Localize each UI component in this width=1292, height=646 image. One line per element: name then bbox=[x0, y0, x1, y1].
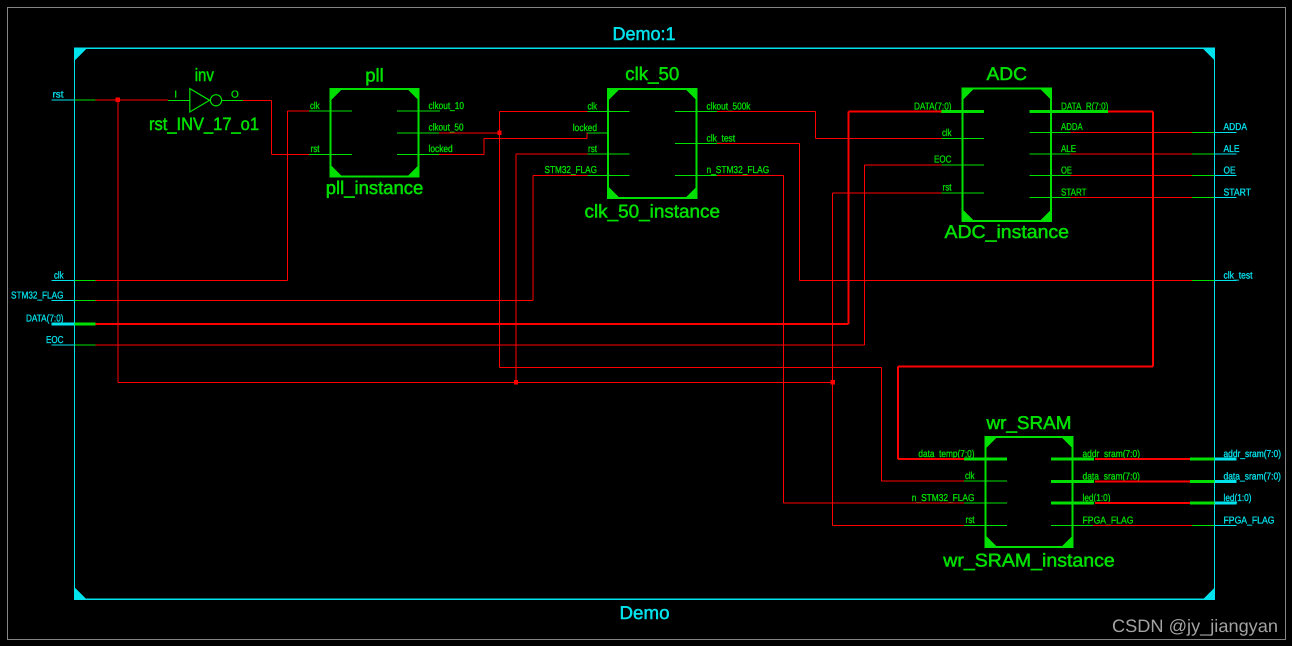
wire net clk: from port bbox=[96, 280, 288, 282]
wire net clkout_50: vertical through bbox=[499, 112, 501, 368]
port output OE bbox=[1192, 166, 1237, 177]
svg-text:pll: pll bbox=[365, 65, 384, 86]
svg-text:ALE: ALE bbox=[1224, 144, 1240, 155]
component ADC (ADC_instance) : block outline bbox=[963, 89, 1052, 222]
junction net clkout_50 branch bbox=[497, 131, 501, 135]
inverter bubble bbox=[210, 95, 221, 106]
port output addr_sram(7:0) bbox=[1190, 449, 1281, 460]
svg-text:inv: inv bbox=[195, 65, 214, 85]
pin ADC.clk (input) stub bbox=[941, 137, 984, 139]
port output ADDA bbox=[1192, 122, 1247, 133]
pin ADC.rst (input) stub bbox=[941, 192, 984, 194]
wire net locked: jog into clk_50.locked bbox=[586, 133, 588, 138]
pin clk_50.clk (input) stub bbox=[587, 111, 630, 113]
port output data_sram(7:0) bbox=[1190, 471, 1281, 482]
wire bus DATA(7:0): into ADC.DATA bbox=[849, 111, 942, 113]
svg-text:clk: clk bbox=[942, 128, 952, 139]
wire net clkout_50: into clk_50.clk bbox=[500, 111, 588, 113]
pin pll.clkout_50 (output) stub bbox=[397, 132, 440, 134]
wire net STM32_FLAG: riser bbox=[532, 175, 534, 300]
svg-text:ADC_instance: ADC_instance bbox=[945, 221, 1070, 242]
wire net rst: into ADC.rst bbox=[833, 192, 942, 194]
component clk_50 (clk_50_instance) : block outline bbox=[608, 89, 697, 198]
svg-text:n_STM32_FLAG: n_STM32_FLAG bbox=[707, 165, 770, 176]
svg-text:rst: rst bbox=[966, 515, 975, 526]
wire bus DATA(7:0): from port bbox=[96, 323, 849, 325]
wire net clk: into pll.clk bbox=[288, 110, 309, 112]
wire net FPGA_FLAG to port bbox=[1093, 525, 1192, 527]
wire net n_STM32_FLAG: drop bbox=[783, 175, 785, 503]
svg-text:pll_instance: pll_instance bbox=[326, 177, 424, 198]
svg-text:FPGA_FLAG: FPGA_FLAG bbox=[1224, 515, 1275, 526]
svg-text:OE: OE bbox=[1061, 166, 1072, 177]
svg-text:ADDA: ADDA bbox=[1224, 122, 1248, 133]
wire bus data_sram(7:0) to port bbox=[1095, 481, 1190, 483]
svg-text:clk_50: clk_50 bbox=[625, 63, 679, 84]
svg-text:DATA_R(7:0): DATA_R(7:0) bbox=[1061, 101, 1108, 112]
pin wr_SRAM.data_sram(7:0) (output) stub bbox=[1051, 480, 1094, 483]
svg-text:clk: clk bbox=[54, 271, 64, 282]
port output ALE bbox=[1192, 144, 1240, 155]
port input clk bbox=[52, 271, 96, 282]
junction net rst at inverter tap bbox=[116, 98, 120, 102]
pin wr_SRAM.n_STM32_FLAG (input) stub bbox=[964, 502, 1007, 504]
svg-text:locked: locked bbox=[573, 123, 597, 134]
clk_50 corner marks bbox=[608, 89, 697, 198]
svg-text:Demo:1: Demo:1 bbox=[613, 23, 676, 44]
pin ADC.START (output) stub bbox=[1030, 197, 1073, 199]
svg-text:addr_sram(7:0): addr_sram(7:0) bbox=[1224, 449, 1282, 460]
wire net clkout_500k: jog down bbox=[814, 112, 816, 139]
wire net clkout_500k: into ADC.clk bbox=[815, 137, 941, 139]
pin clk_50.n_STM32_FLAG (output) stub bbox=[675, 174, 718, 176]
wire net rst: long horizontal run bbox=[118, 381, 833, 383]
wire net rst: port to inverter input bbox=[96, 99, 169, 101]
port input DATA(7:0) bbox=[26, 314, 96, 325]
svg-text:wr_SRAM_instance: wr_SRAM_instance bbox=[942, 550, 1114, 571]
wire net rst: vertical drop bbox=[117, 100, 119, 383]
svg-text:EOC: EOC bbox=[46, 335, 64, 346]
wire net clk: riser bbox=[287, 111, 289, 281]
component pll (pll_instance) : block outline bbox=[331, 89, 419, 177]
pin clk_50.rst (input) stub bbox=[587, 153, 630, 155]
svg-text:clk: clk bbox=[588, 101, 598, 112]
svg-text:START: START bbox=[1061, 187, 1087, 198]
svg-text:EOC: EOC bbox=[934, 155, 952, 166]
svg-text:OE: OE bbox=[1224, 166, 1236, 177]
pin ADC.ALE (output) stub bbox=[1030, 153, 1073, 155]
junction net rst at ADC/wr_SRAM branch bbox=[830, 380, 834, 384]
pin ADC.OE (output) stub bbox=[1030, 175, 1073, 177]
wire net rst: into clk_50.rst bbox=[516, 153, 588, 155]
svg-text:rst: rst bbox=[943, 183, 952, 194]
wire net clk_test: drop bbox=[799, 144, 801, 281]
svg-text:data_sram(7:0): data_sram(7:0) bbox=[1224, 471, 1282, 482]
svg-text:clk_50_instance: clk_50_instance bbox=[585, 201, 721, 222]
svg-text:STM32_FLAG: STM32_FLAG bbox=[545, 165, 598, 176]
port input rst bbox=[52, 90, 96, 101]
svg-text:ALE: ALE bbox=[1061, 144, 1076, 155]
wire net rst: into wr_SRAM.rst bbox=[833, 524, 964, 526]
junction net rst at clk_50 branch bbox=[514, 380, 518, 384]
port output START bbox=[1192, 187, 1251, 198]
svg-text:FPGA_FLAG: FPGA_FLAG bbox=[1083, 515, 1134, 526]
wire net clkout_50: drop to wr_SRAM.clk bbox=[880, 367, 882, 481]
wire net n_STM32_FLAG: into wr_SRAM bbox=[784, 502, 964, 504]
wire net clkout_500k: from clk_50 bbox=[717, 111, 815, 113]
svg-text:O: O bbox=[231, 90, 239, 101]
pin clk_50.clkout_500k (output) stub bbox=[675, 111, 718, 113]
wire net EOC: from port bbox=[96, 344, 865, 346]
ADC corner marks bbox=[963, 89, 1052, 222]
pin pll.rst (input) stub bbox=[309, 153, 352, 155]
inverter triangle bbox=[190, 89, 210, 112]
pin inv.I stub bbox=[168, 99, 190, 101]
pin inv.O stub bbox=[222, 99, 243, 101]
sheet border (Demo) bbox=[75, 48, 1215, 599]
wire net STM32_FLAG: into clk_50 bbox=[533, 174, 588, 176]
pin wr_SRAM.led(1:0) (output) stub bbox=[1051, 502, 1094, 505]
wire bus DATA_R(7:0): drop bbox=[1152, 112, 1154, 367]
wire bus led(1:0) to port bbox=[1095, 502, 1190, 504]
svg-text:Demo: Demo bbox=[620, 602, 670, 623]
pin pll.clk (input) stub bbox=[309, 110, 352, 112]
wire net ADDA to port bbox=[1071, 131, 1193, 133]
port output led(1:0) bbox=[1190, 493, 1252, 504]
pin wr_SRAM.clk (input) stub bbox=[964, 480, 1007, 482]
pin wr_SRAM.rst (input) stub bbox=[964, 524, 1007, 526]
pin clk_50.locked (input) stub bbox=[587, 132, 609, 134]
svg-text:DATA(7:0): DATA(7:0) bbox=[26, 314, 64, 325]
svg-text:START: START bbox=[1224, 187, 1252, 198]
component wr_SRAM (wr_SRAM_instance) : block outline bbox=[986, 437, 1073, 547]
svg-text:clk_test: clk_test bbox=[707, 133, 736, 144]
svg-text:clkout_50: clkout_50 bbox=[429, 123, 464, 134]
wire net STM32_FLAG: from port bbox=[96, 300, 534, 302]
wire net EOC: riser bbox=[864, 165, 866, 345]
pin wr_SRAM.addr_sram(7:0) (output) stub bbox=[1051, 458, 1094, 461]
wire bus addr_sram(7:0) to port bbox=[1095, 458, 1190, 460]
svg-text:clk_test: clk_test bbox=[1224, 270, 1253, 281]
wire net clkout_50: run to wr_SRAM bbox=[500, 366, 882, 368]
wire net locked: run bbox=[484, 137, 587, 139]
svg-text:locked: locked bbox=[429, 144, 453, 155]
pin pll.locked (output) stub bbox=[397, 153, 440, 155]
wire net START to port bbox=[1071, 197, 1193, 199]
svg-text:ADDA: ADDA bbox=[1061, 122, 1083, 133]
svg-text:rst_INV_17_o1: rst_INV_17_o1 bbox=[149, 114, 259, 134]
port input STM32_FLAG bbox=[11, 291, 96, 302]
svg-text:clkout_10: clkout_10 bbox=[429, 101, 465, 112]
wire bus DATA(7:0): riser bbox=[848, 112, 850, 324]
port input EOC bbox=[46, 335, 96, 346]
wire net rst: riser to clk_50.rst bbox=[515, 154, 517, 382]
wire bus DATA_R(7:0): into wr_SRAM.data_temp bbox=[898, 458, 964, 460]
pin wr_SRAM.FPGA_FLAG (output) stub bbox=[1051, 525, 1094, 527]
wire net rst_inv: drop bbox=[270, 100, 272, 154]
pin ADC.ADDA (output) stub bbox=[1030, 131, 1073, 133]
wire bus DATA_R(7:0): run left bbox=[898, 366, 1153, 368]
pin ADC.EOC (input) stub bbox=[941, 164, 984, 166]
wire net locked: jog up bbox=[483, 138, 485, 154]
wire net clk_test: run to output port bbox=[800, 280, 1192, 282]
svg-text:STM32_FLAG: STM32_FLAG bbox=[11, 291, 64, 302]
wire net rst_inv: into pll.rst bbox=[271, 153, 309, 155]
pin pll.clkout_10 (output) stub bbox=[397, 110, 440, 112]
wire net locked: from pll.locked bbox=[439, 153, 484, 155]
wire net n_STM32_FLAG: from clk_50 bbox=[717, 174, 784, 176]
pin wr_SRAM.data_temp(7:0) (input) stub bbox=[964, 458, 1007, 461]
wr_SRAM corner marks bbox=[986, 437, 1073, 547]
pin clk_50.STM32_FLAG (input) stub bbox=[587, 174, 630, 176]
wire bus DATA_R(7:0): drop to wr_SRAM bbox=[897, 367, 899, 459]
wire bus DATA_R(7:0): from ADC bbox=[1108, 111, 1153, 113]
pin ADC.DATA(7:0) (input) stub bbox=[941, 110, 984, 113]
wire net clkout_50: from pll.clkout_50 bbox=[439, 132, 500, 134]
svg-text:clk: clk bbox=[310, 101, 320, 112]
svg-text:rst: rst bbox=[588, 144, 597, 155]
svg-text:n_STM32_FLAG: n_STM32_FLAG bbox=[912, 493, 975, 504]
svg-text:rst: rst bbox=[53, 90, 64, 101]
port output FPGA_FLAG bbox=[1192, 515, 1275, 526]
port output clk_test bbox=[1192, 270, 1253, 281]
svg-text:clk: clk bbox=[965, 471, 975, 482]
inverter U_inv rst_INV_17_o1 bbox=[149, 65, 259, 134]
svg-text:rst: rst bbox=[311, 144, 320, 155]
pin ADC.DATA_R(7:0) (output) stub bbox=[1030, 110, 1108, 113]
wire net EOC: into ADC.EOC bbox=[865, 164, 942, 166]
pll corner marks bbox=[331, 89, 419, 177]
wire net clk_test: from clk_50 bbox=[717, 143, 800, 145]
svg-text:clkout_500k: clkout_500k bbox=[707, 101, 752, 112]
svg-text:CSDN @jy_jiangyan: CSDN @jy_jiangyan bbox=[1112, 616, 1278, 636]
wire net ALE to port bbox=[1071, 153, 1193, 155]
pin clk_50.clk_test (output) stub bbox=[675, 143, 718, 145]
wire net rst: riser ADC.rst to wr_SRAM.rst bbox=[832, 193, 834, 526]
svg-text:ADC: ADC bbox=[987, 63, 1028, 84]
svg-text:led(1:0): led(1:0) bbox=[1224, 493, 1252, 504]
wire net clkout_50: into wr_SRAM.clk bbox=[881, 480, 964, 482]
svg-text:wr_SRAM: wr_SRAM bbox=[985, 412, 1071, 433]
svg-text:I: I bbox=[174, 90, 177, 101]
wire net OE to port bbox=[1071, 175, 1193, 177]
wire net rst_inv: from inverter output bbox=[243, 99, 271, 101]
